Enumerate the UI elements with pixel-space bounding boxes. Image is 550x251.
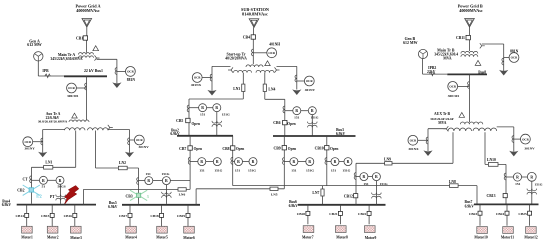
svg-text:LN10: LN10 bbox=[487, 158, 496, 162]
breaker CB7 open feeder bbox=[189, 136, 191, 190]
svg-text:401NH: 401NH bbox=[269, 43, 280, 47]
Aux Tr A left neutral with CT bbox=[43, 129, 65, 131]
breaker CB18 and Motor5 bbox=[161, 205, 163, 226]
ground Aux Tr B left neutral bbox=[423, 150, 432, 156]
svg-text:CB12: CB12 bbox=[344, 194, 353, 198]
svg-text:50GS: 50GS bbox=[58, 185, 66, 189]
ground Aux Tr B right neutral bbox=[509, 151, 518, 157]
breaker CB15 and Motor2 bbox=[51, 205, 53, 227]
svg-text:151G: 151G bbox=[342, 169, 350, 173]
wire relay row to CB7 vertical bbox=[170, 180, 190, 182]
ground Aux Tr A right neutral bbox=[125, 152, 134, 158]
svg-text:OCR: OCR bbox=[449, 85, 457, 89]
svg-text:CB5: CB5 bbox=[176, 119, 183, 123]
svg-text:40/20/20MVA: 40/20/20MVA bbox=[225, 56, 247, 60]
Bus6 right feeder from LN9 bbox=[355, 163, 357, 205]
svg-text:Motor3: Motor3 bbox=[70, 236, 82, 240]
svg-text:R: R bbox=[516, 176, 519, 180]
tie wire LN9 to Aux Tr B left bbox=[356, 162, 453, 164]
relay 151 CB13 bbox=[506, 176, 513, 178]
breaker CB9 open feeder bbox=[283, 136, 285, 189]
breaker CB8 open feeder bbox=[232, 136, 234, 186]
breaker CB14 and Motor1 bbox=[26, 205, 28, 227]
svg-text:51: 51 bbox=[42, 185, 46, 189]
svg-text:OCR: OCR bbox=[136, 138, 144, 142]
svg-text:LN2: LN2 bbox=[119, 161, 126, 165]
breaker CB24 and Motor11 bbox=[506, 204, 508, 225]
svg-text:CB21: CB21 bbox=[329, 212, 338, 216]
relay 151G top Bus3 bbox=[301, 110, 308, 112]
breaker CB12 bbox=[354, 194, 358, 198]
svg-text:LN4: LN4 bbox=[268, 88, 275, 92]
svg-text:301NV: 301NV bbox=[524, 147, 535, 151]
relay 51 bbox=[32, 179, 40, 181]
svg-text:CB4: CB4 bbox=[243, 36, 250, 40]
ground Aux Tr A left neutral bbox=[38, 152, 47, 158]
svg-text:151G: 151G bbox=[306, 169, 314, 173]
relay 151 CB8 bbox=[233, 161, 235, 163]
relay OCR 301NY bbox=[33, 141, 43, 143]
svg-text:CB25: CB25 bbox=[518, 212, 527, 216]
svg-text:Motor10: Motor10 bbox=[474, 236, 488, 240]
reactor LN4 bbox=[264, 73, 266, 100]
wire Aux Tr B right feeder to LN10 bbox=[484, 132, 486, 164]
svg-text:Motor12: Motor12 bbox=[524, 236, 538, 240]
PT below 151G to Bus5 bbox=[165, 185, 167, 204]
svg-text:R: R bbox=[237, 160, 240, 164]
svg-text:151: 151 bbox=[363, 182, 369, 186]
PT below 151G to Bus7 bbox=[531, 181, 533, 204]
svg-text:Open: Open bbox=[236, 147, 244, 151]
svg-text:R: R bbox=[334, 160, 337, 164]
svg-text:CB8: CB8 bbox=[222, 147, 229, 151]
relay 151G CB10 bbox=[339, 161, 344, 163]
long tie wire CB8 to CB10 to Bus7 bbox=[233, 185, 477, 187]
relay 151G CB7 bbox=[206, 161, 213, 163]
relay OCR 401NX bbox=[202, 77, 212, 79]
wire LN3 to Bus2 feeder bbox=[189, 98, 243, 100]
relay 151G CB8 bbox=[243, 161, 250, 163]
svg-text:CB14: CB14 bbox=[16, 214, 25, 218]
svg-text:R: R bbox=[216, 160, 219, 164]
svg-text:Motor7: Motor7 bbox=[302, 236, 314, 240]
svg-text:LN8: LN8 bbox=[449, 180, 456, 184]
breaker CB10 open feeder bbox=[326, 136, 328, 186]
svg-text:R: R bbox=[252, 160, 255, 164]
svg-text:CB1: CB1 bbox=[76, 36, 83, 40]
svg-text:Motor11: Motor11 bbox=[501, 236, 514, 240]
wire Gen B to Bus8 with IPB2 bbox=[422, 59, 424, 75]
wire Bus4 up to tie line bbox=[83, 189, 85, 204]
svg-text:6.9kV: 6.9kV bbox=[289, 204, 299, 208]
svg-text:CB10: CB10 bbox=[315, 146, 324, 150]
PT below 151G to Bus2 bbox=[216, 112, 218, 136]
relay 151G CB12 bbox=[368, 176, 372, 178]
wire Bus8 down to Aux Tr B bbox=[468, 74, 470, 122]
breaker CB17 and Motor4 bbox=[129, 205, 131, 226]
svg-text:40000MVAsc: 40000MVAsc bbox=[459, 8, 483, 13]
svg-text:OCR: OCR bbox=[194, 76, 202, 80]
tie wire Bus4 to CB7 with LN6 bbox=[84, 188, 191, 190]
svg-text:CB15: CB15 bbox=[41, 214, 50, 218]
svg-text:CB6: CB6 bbox=[273, 121, 280, 125]
PT below 151G to Bus6 bbox=[375, 181, 377, 205]
svg-text:151: 151 bbox=[145, 172, 151, 176]
svg-text:R: R bbox=[215, 106, 218, 110]
ground Main Tr A neutral bbox=[112, 82, 121, 88]
CT startup bbox=[252, 49, 254, 56]
svg-text:151: 151 bbox=[331, 169, 337, 173]
relay OCR 301NV bbox=[130, 139, 135, 141]
svg-text:612 MW: 612 MW bbox=[403, 41, 418, 45]
svg-text:R: R bbox=[293, 160, 296, 164]
wire grid B to CB11 bbox=[469, 27, 471, 51]
svg-text:Open: Open bbox=[192, 122, 200, 126]
svg-text:Open: Open bbox=[288, 147, 296, 151]
svg-text:Open: Open bbox=[287, 122, 295, 126]
breaker CB4 bbox=[251, 35, 255, 39]
breaker CB23 and Motor10 bbox=[479, 204, 481, 225]
relay OCR 301NX bbox=[418, 139, 428, 141]
svg-text:Motor8: Motor8 bbox=[336, 236, 348, 240]
svg-text:Motor6: Motor6 bbox=[183, 236, 195, 240]
Start-up Tr left neutral bbox=[212, 65, 231, 67]
svg-text:R: R bbox=[530, 175, 533, 179]
fault lightning bolt on Bus4 bbox=[64, 186, 79, 206]
svg-text:151G: 151G bbox=[535, 182, 543, 186]
svg-text:300/301: 300/301 bbox=[67, 94, 79, 98]
wire grid A to CB1 bbox=[86, 27, 88, 35]
svg-text:OCR: OCR bbox=[24, 140, 32, 144]
svg-text:151: 151 bbox=[200, 112, 206, 116]
svg-text:401NX: 401NX bbox=[191, 83, 202, 87]
ground startup right neutral bbox=[292, 89, 301, 95]
svg-text:CB11: CB11 bbox=[456, 36, 465, 40]
breaker CB11 bbox=[466, 35, 470, 39]
relay OCR 300/301 bbox=[77, 87, 87, 89]
svg-text:345/22kV,630.6MVA: 345/22kV,630.6MVA bbox=[50, 57, 82, 61]
svg-text:Motor1: Motor1 bbox=[21, 236, 33, 240]
svg-text:1:2: 1:2 bbox=[36, 194, 43, 199]
CT Bus4 feeder bbox=[30, 176, 32, 183]
svg-text:IPB: IPB bbox=[42, 69, 49, 73]
svg-text:CB2: CB2 bbox=[17, 188, 24, 192]
svg-text:CB16: CB16 bbox=[64, 214, 73, 218]
svg-text:6.9kV: 6.9kV bbox=[2, 203, 12, 207]
svg-text:LN9: LN9 bbox=[384, 157, 391, 161]
breaker CB22 and Motor9 bbox=[368, 205, 370, 225]
relay 151G CB13 bbox=[522, 176, 528, 178]
svg-text:CB22: CB22 bbox=[358, 212, 367, 216]
reactor LN5 bbox=[270, 187, 278, 190]
relay OCR 300/301 right bbox=[458, 85, 470, 87]
breaker CB21 and Motor8 bbox=[339, 205, 341, 225]
relay OCR 401NH bbox=[253, 52, 267, 54]
svg-text:LN6: LN6 bbox=[179, 192, 186, 196]
breaker CB20 and Motor7 bbox=[307, 205, 309, 225]
relay 151G CB9 bbox=[298, 161, 306, 163]
svg-text:151: 151 bbox=[515, 182, 521, 186]
svg-text:CB24: CB24 bbox=[496, 212, 505, 216]
svg-text:CB17: CB17 bbox=[119, 214, 128, 218]
svg-text:6.9kV: 6.9kV bbox=[465, 205, 475, 209]
svg-text:LN7: LN7 bbox=[312, 191, 319, 195]
relay 151 top Bus2 bbox=[189, 107, 199, 109]
svg-text:151G: 151G bbox=[311, 115, 319, 119]
wire LN1 down to Bus4 bbox=[31, 167, 33, 204]
svg-text:R: R bbox=[42, 179, 45, 183]
wire LN2 down to Bus5 bbox=[138, 168, 140, 204]
relay 50GS bbox=[48, 179, 56, 181]
svg-text:300/301: 300/301 bbox=[448, 94, 460, 98]
Aux Tr B left neutral bbox=[428, 128, 447, 130]
breaker CB5 open bbox=[186, 118, 190, 122]
svg-text:CT: CT bbox=[22, 177, 28, 181]
svg-text:R: R bbox=[347, 160, 350, 164]
ground Main Tr B neutral bbox=[499, 70, 508, 76]
svg-text:Motor4: Motor4 bbox=[125, 236, 137, 240]
relay 151 CB10 bbox=[327, 161, 331, 163]
svg-text:6.9kV: 6.9kV bbox=[108, 205, 118, 209]
svg-text:OCR: OCR bbox=[522, 137, 530, 141]
svg-text:CB9: CB9 bbox=[273, 146, 280, 150]
svg-text:151G: 151G bbox=[162, 172, 170, 176]
svg-text:PT: PT bbox=[50, 195, 55, 199]
svg-text:881N: 881N bbox=[510, 49, 519, 53]
wire LN4 to Bus3 feeder bbox=[265, 98, 285, 100]
svg-text:881N: 881N bbox=[127, 78, 136, 82]
svg-text:301NY: 301NY bbox=[25, 147, 36, 151]
wire Bus1 down to Aux Tr A bbox=[86, 76, 88, 120]
relay 151 CB9 bbox=[284, 161, 290, 163]
svg-text:LN5: LN5 bbox=[271, 192, 278, 196]
svg-text:40000MVAsc: 40000MVAsc bbox=[76, 8, 100, 13]
relay OCR 881N right bbox=[504, 57, 510, 59]
wire Aux Tr A left feeder to LN1 bbox=[75, 131, 77, 168]
CT Bus5 feeder bbox=[137, 178, 139, 185]
svg-text:22 kV Bus1: 22 kV Bus1 bbox=[84, 69, 103, 73]
breaker CB6 open bbox=[283, 120, 287, 124]
svg-text:612 MW: 612 MW bbox=[27, 43, 42, 47]
svg-text:OCR: OCR bbox=[68, 86, 76, 90]
svg-text:151: 151 bbox=[291, 169, 297, 173]
wire Gen A to Bus1 with IPB bbox=[37, 61, 39, 76]
svg-text:3: 3 bbox=[147, 194, 149, 199]
CT Bus2 top feeder bbox=[187, 105, 189, 112]
svg-text:OCR: OCR bbox=[410, 139, 418, 143]
svg-text:MVA: MVA bbox=[443, 56, 452, 60]
svg-text:CB20: CB20 bbox=[297, 212, 306, 216]
Aux Tr B right neutral bbox=[497, 126, 514, 128]
svg-text:301NV: 301NV bbox=[138, 145, 149, 149]
svg-text:301NX: 301NX bbox=[408, 147, 419, 151]
reactor LN8 bbox=[450, 184, 459, 188]
svg-text:Motor5: Motor5 bbox=[156, 236, 168, 240]
CT Bus3 top feeder bbox=[283, 106, 285, 113]
wire tie down to Bus7 bbox=[476, 186, 478, 205]
svg-text:R: R bbox=[165, 179, 168, 183]
svg-text:CB13: CB13 bbox=[486, 194, 495, 198]
reactor LN3 bbox=[242, 73, 244, 99]
breaker CB25 and Motor12 bbox=[529, 204, 531, 225]
svg-text:R: R bbox=[308, 160, 311, 164]
breaker CB1 bbox=[83, 36, 87, 40]
svg-text:Motor9: Motor9 bbox=[365, 236, 377, 240]
svg-text:MVA: MVA bbox=[438, 121, 447, 125]
breaker CB13 bbox=[503, 194, 507, 198]
svg-text:R: R bbox=[375, 175, 378, 179]
wire LN10 down to Bus7 bbox=[505, 164, 507, 204]
svg-text:R: R bbox=[201, 106, 204, 110]
relay 151G top Bus2 bbox=[207, 107, 213, 109]
svg-text:R: R bbox=[295, 109, 298, 113]
svg-text:8140.8MVAsc: 8140.8MVAsc bbox=[242, 12, 268, 17]
svg-text:Motor2: Motor2 bbox=[47, 236, 59, 240]
wire Aux Tr A right feeder to LN2 bbox=[95, 131, 97, 169]
relay 151 CB7 bbox=[190, 160, 198, 162]
svg-text:CB3: CB3 bbox=[125, 194, 132, 198]
svg-text:OCR: OCR bbox=[511, 56, 519, 60]
svg-text:151G: 151G bbox=[248, 169, 256, 173]
reactor LN7 branch to Bus6 bbox=[322, 186, 324, 205]
svg-text:151G: 151G bbox=[222, 112, 230, 116]
svg-text:151G: 151G bbox=[214, 169, 222, 173]
breaker CB16 and Motor3 bbox=[74, 205, 76, 227]
relay 151 bbox=[139, 180, 145, 182]
svg-text:CB23: CB23 bbox=[469, 212, 478, 216]
svg-text:AUX Tr B: AUX Tr B bbox=[434, 112, 451, 116]
ground startup left neutral bbox=[207, 90, 216, 96]
wire relay 50GS to PT to Bus4 bbox=[59, 184, 61, 203]
Start-up Tr right neutral bbox=[277, 65, 297, 67]
PT below 151G to Bus3 bbox=[311, 115, 313, 136]
svg-text:Open: Open bbox=[194, 147, 202, 151]
svg-text:151: 151 bbox=[199, 169, 205, 173]
svg-text:Open: Open bbox=[330, 147, 338, 151]
Aux Tr A right neutral with CT bbox=[108, 129, 130, 131]
breaker CB19 and Motor6 bbox=[187, 205, 189, 226]
tie wire Bus5 to CB9 with LN5 bbox=[195, 189, 197, 205]
svg-text:30.8/26.6F/26.6MVA: 30.8/26.6F/26.6MVA bbox=[38, 120, 68, 124]
svg-text:CB19: CB19 bbox=[177, 214, 186, 218]
svg-text:151: 151 bbox=[294, 115, 300, 119]
svg-text:R: R bbox=[200, 160, 203, 164]
relay 151 CB12 bbox=[356, 176, 360, 178]
Main Tr A neutral wire bbox=[97, 58, 117, 60]
svg-text:401NV: 401NV bbox=[305, 88, 316, 92]
svg-text:151: 151 bbox=[235, 169, 241, 173]
relay OCR 881N bbox=[117, 70, 126, 72]
svg-text:LN1: LN1 bbox=[45, 161, 52, 165]
relay 151G bbox=[153, 180, 163, 182]
svg-text:151G: 151G bbox=[380, 182, 388, 186]
wire substation to CB4 bbox=[253, 27, 255, 35]
svg-text:R: R bbox=[147, 179, 150, 183]
svg-text:OCR: OCR bbox=[268, 51, 276, 55]
Main Tr B neutral wire bbox=[482, 43, 504, 45]
svg-text:R: R bbox=[363, 175, 366, 179]
svg-text:CB7: CB7 bbox=[179, 147, 186, 151]
svg-text:R: R bbox=[311, 109, 314, 113]
reactor LN6 bbox=[178, 188, 186, 191]
relay OCR 301NV right bbox=[514, 138, 521, 140]
relay 151 top Bus3 bbox=[285, 110, 293, 112]
relay OCR 401NV bbox=[297, 80, 305, 82]
svg-text:OCR: OCR bbox=[306, 79, 314, 83]
svg-text:R: R bbox=[59, 179, 62, 183]
svg-text:OCR: OCR bbox=[127, 70, 135, 74]
svg-text:LN3: LN3 bbox=[233, 87, 240, 91]
reactor LN9 bbox=[385, 162, 392, 165]
svg-text:CB18: CB18 bbox=[150, 214, 159, 218]
